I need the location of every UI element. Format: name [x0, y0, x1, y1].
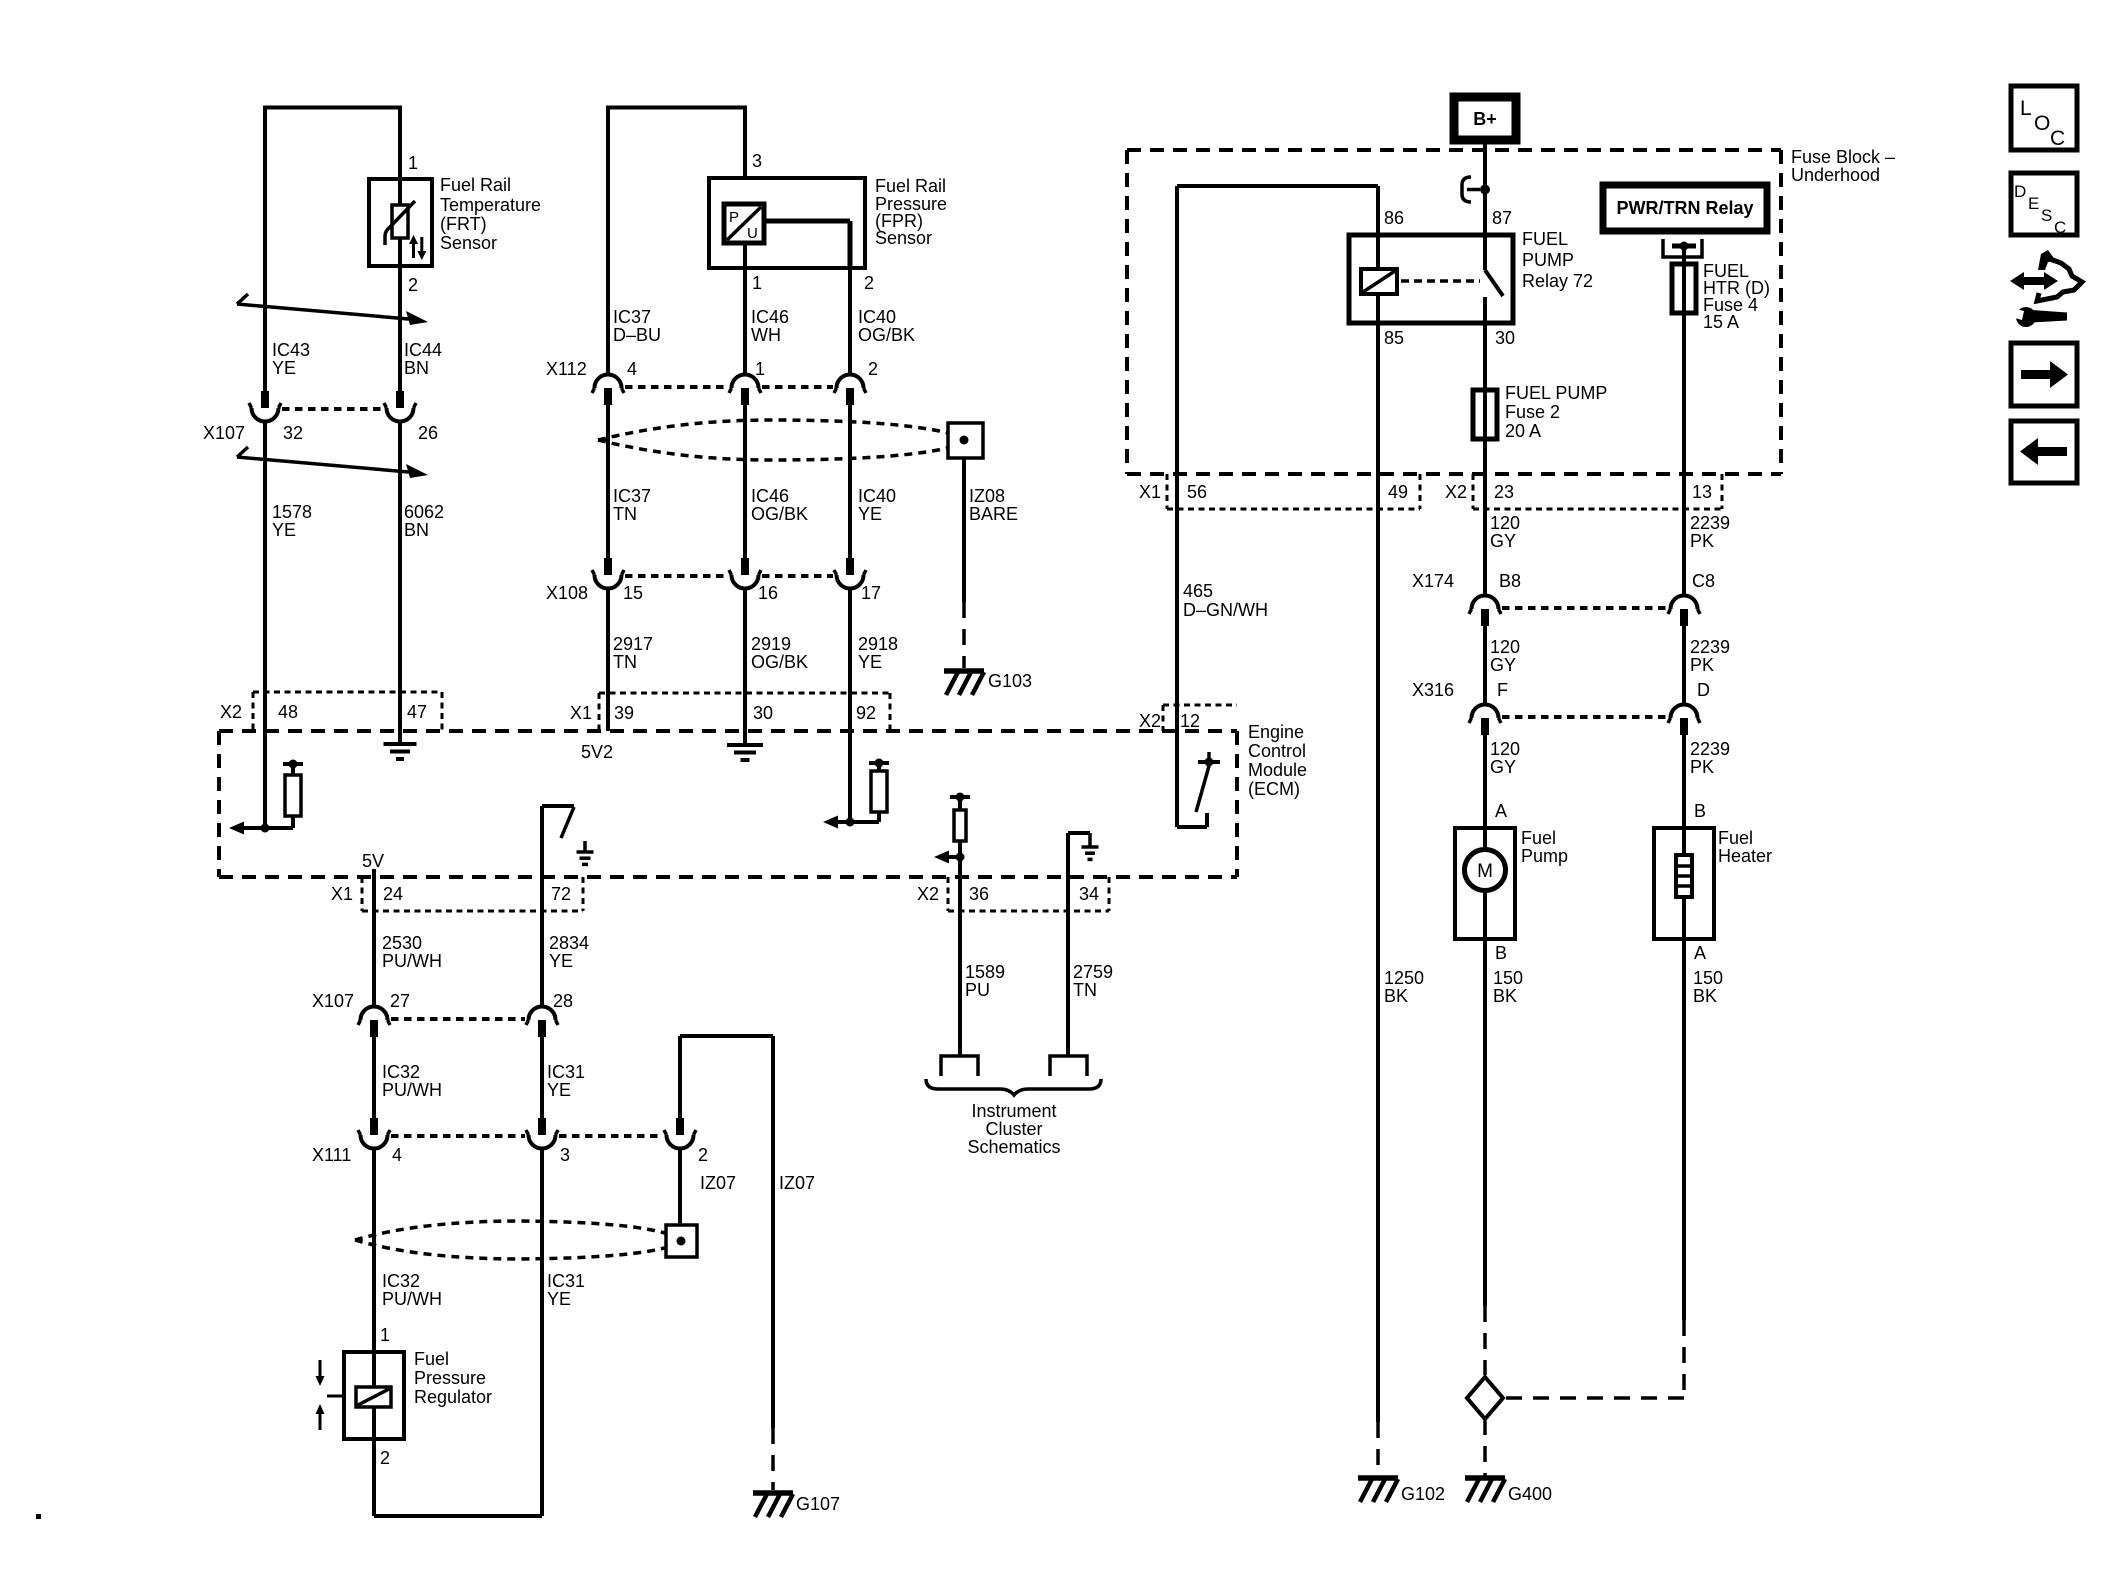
- svg-text:BN: BN: [404, 358, 429, 378]
- svg-text:39: 39: [614, 703, 634, 723]
- wire IC40 OG/BK below sensor: [848, 268, 852, 373]
- svg-text:5V2: 5V2: [581, 742, 613, 762]
- svg-text:X2: X2: [220, 702, 242, 722]
- relay switch blade: [1483, 235, 1487, 270]
- svg-text:2759: 2759: [1073, 962, 1113, 982]
- connector X107 row2 dashed link: [391, 1017, 525, 1021]
- svg-text:Fuse Block –: Fuse Block –: [1791, 147, 1895, 167]
- wire regulator pin 2 loop: [372, 1439, 376, 1516]
- wire splice to G400: [1483, 1419, 1487, 1476]
- svg-text:Pressure: Pressure: [414, 1368, 486, 1388]
- svg-text:86: 86: [1384, 208, 1404, 228]
- wire IC37 TN: [606, 405, 610, 558]
- svg-text:GY: GY: [1490, 655, 1516, 675]
- svg-text:IC46: IC46: [751, 307, 789, 327]
- connector X316 pin F: [1481, 718, 1489, 735]
- terminal pin 36 to cluster: [941, 1056, 978, 1076]
- ground G102: [1358, 1475, 1398, 1481]
- svg-text:Sensor: Sensor: [875, 228, 932, 248]
- svg-text:23: 23: [1494, 482, 1514, 502]
- connector X111 pin 3: [538, 1118, 546, 1135]
- svg-text:2239: 2239: [1690, 739, 1730, 759]
- ECM pin box X2 12: [1163, 704, 1237, 707]
- svg-text:IC44: IC44: [404, 340, 442, 360]
- svg-text:IC40: IC40: [858, 486, 896, 506]
- ECM pin box X1 39/30/92: [599, 692, 890, 695]
- wire IC46 OG/BK: [743, 405, 747, 558]
- svg-text:Underhood: Underhood: [1791, 165, 1880, 185]
- svg-text:47: 47: [407, 702, 427, 722]
- svg-text:Fuel: Fuel: [1718, 828, 1753, 848]
- PWR/TRN relay box: [1603, 185, 1767, 231]
- svg-text:28: 28: [553, 991, 573, 1011]
- wire fuse 4 to pin 13: [1682, 313, 1686, 474]
- wire IC44 BN below sensor: [398, 266, 402, 391]
- svg-text:465: 465: [1183, 581, 1213, 601]
- svg-text:Control: Control: [1248, 741, 1306, 761]
- regulator opposing arrows: [319, 1360, 322, 1376]
- svg-text:150: 150: [1693, 968, 1723, 988]
- wire 1589 PU: [958, 877, 962, 1056]
- svg-text:YE: YE: [549, 951, 573, 971]
- svg-text:IC40: IC40: [858, 307, 896, 327]
- svg-text:120: 120: [1490, 637, 1520, 657]
- svg-text:30: 30: [1495, 328, 1515, 348]
- svg-text:Cluster: Cluster: [985, 1119, 1042, 1139]
- svg-text:WH: WH: [751, 325, 781, 345]
- thermistor symbol inside FRT sensor: [392, 205, 408, 238]
- svg-text:Regulator: Regulator: [414, 1387, 492, 1407]
- svg-text:B+: B+: [1473, 109, 1497, 129]
- wire 2239 PK upper: [1682, 474, 1686, 595]
- svg-text:X112: X112: [546, 359, 587, 379]
- svg-text:Pump: Pump: [1521, 846, 1568, 866]
- svg-text:L: L: [2020, 97, 2032, 120]
- fuse block dashed border: [1127, 148, 1781, 152]
- svg-text:IC31: IC31: [547, 1271, 585, 1291]
- svg-text:PWR/TRN Relay: PWR/TRN Relay: [1616, 198, 1753, 218]
- svg-text:IC31: IC31: [547, 1062, 585, 1082]
- svg-text:1: 1: [408, 153, 418, 173]
- icon diagnostic squiggle: [2010, 272, 2058, 290]
- P/U transducer symbol: [724, 204, 764, 243]
- svg-text:72: 72: [551, 884, 571, 904]
- svg-text:YE: YE: [547, 1080, 571, 1100]
- wire 2917 TN: [606, 589, 610, 731]
- svg-text:1: 1: [380, 1325, 390, 1345]
- svg-text:2: 2: [868, 359, 878, 379]
- svg-text:PU/WH: PU/WH: [382, 1289, 442, 1309]
- svg-text:Heater: Heater: [1718, 846, 1772, 866]
- connector X107 pin 32: [261, 391, 269, 408]
- svg-text:F: F: [1497, 680, 1508, 700]
- fuel pump relay 72 box: [1349, 235, 1513, 323]
- svg-text:IC32: IC32: [382, 1271, 420, 1291]
- shield termination box IZ07: [666, 1225, 697, 1257]
- svg-text:IZ07: IZ07: [700, 1173, 736, 1193]
- ECM pin box X1 24/72: [361, 877, 364, 911]
- svg-text:YE: YE: [858, 504, 882, 524]
- FPR sensor box: [709, 178, 865, 268]
- svg-text:2834: 2834: [549, 933, 589, 953]
- svg-text:Schematics: Schematics: [967, 1137, 1060, 1157]
- wire 2239 PK middle: [1682, 626, 1686, 703]
- terminal pin 34 to cluster: [1050, 1056, 1087, 1076]
- fuel pump motor: [1483, 828, 1487, 850]
- ECM internal: pull-up + buffer at pin 36: [950, 795, 970, 799]
- wire 465 D-GN/WH inside fuse block: [1175, 186, 1179, 474]
- svg-text:2: 2: [864, 273, 874, 293]
- wire 465 D-GN/WH to ECM pin 12: [1175, 474, 1179, 731]
- connector X316 dashed link: [1502, 715, 1667, 719]
- connector X112 pin 4: [604, 388, 612, 405]
- wire into fuse 4: [1682, 246, 1686, 264]
- wire IC31 YE long down: [540, 1149, 544, 1516]
- svg-text:Fuse 2: Fuse 2: [1505, 402, 1560, 422]
- B+ terminal: [1454, 97, 1516, 140]
- icon box LOC: [2011, 86, 2077, 150]
- svg-text:2918: 2918: [858, 634, 898, 654]
- stray print mark: [36, 1514, 41, 1519]
- regulator solenoid coil: [356, 1387, 391, 1407]
- connector X174 pin C8: [1680, 609, 1688, 626]
- connector X112 dashed link: [625, 385, 728, 389]
- break arrow lower: [237, 447, 248, 457]
- wire IC46 WH below sensor: [743, 243, 747, 373]
- svg-text:24: 24: [383, 884, 403, 904]
- wire relay 30 to fuse 2: [1483, 323, 1487, 390]
- splice diamond: [1467, 1377, 1503, 1419]
- in-line connector clip on B+ wire: [1462, 177, 1471, 202]
- svg-text:OG/BK: OG/BK: [751, 504, 808, 524]
- wire FRT sensor loop top: [265, 106, 400, 110]
- fuse 2 element: [1473, 390, 1497, 439]
- fuel pump box: [1455, 828, 1515, 939]
- fuse 4 element: [1672, 264, 1696, 313]
- svg-text:B8: B8: [1499, 571, 1521, 591]
- connector X108 pin 15: [604, 558, 612, 575]
- svg-text:YE: YE: [858, 652, 882, 672]
- wire 150 BK heater: [1682, 939, 1686, 1320]
- svg-text:12: 12: [1180, 711, 1200, 731]
- svg-text:15 A: 15 A: [1703, 312, 1739, 332]
- svg-text:27: 27: [390, 991, 410, 1011]
- svg-text:Sensor: Sensor: [440, 233, 497, 253]
- svg-text:YE: YE: [272, 520, 296, 540]
- wire 120 GY upper: [1483, 474, 1487, 595]
- wire 150 BK pump: [1483, 939, 1487, 1306]
- svg-text:C: C: [2054, 218, 2066, 237]
- icon box arrow left: [2011, 421, 2077, 483]
- svg-text:1589: 1589: [965, 962, 1005, 982]
- svg-text:GY: GY: [1490, 531, 1516, 551]
- svg-text:150: 150: [1493, 968, 1523, 988]
- connector X108 pin 17: [846, 558, 854, 575]
- wire FPR loop top: [608, 106, 745, 110]
- svg-text:1578: 1578: [272, 502, 312, 522]
- svg-text:Fuel: Fuel: [414, 1349, 449, 1369]
- wire 2834 YE: [540, 877, 544, 1006]
- svg-text:IC37: IC37: [613, 307, 651, 327]
- svg-text:49: 49: [1388, 482, 1408, 502]
- connector X316 pin D: [1680, 718, 1688, 735]
- ECM dashed border: [219, 729, 1237, 733]
- wire 150 BK heater dashed to splice: [1682, 1320, 1686, 1396]
- wire fuse 2 to pin 23: [1483, 439, 1487, 474]
- svg-text:32: 32: [283, 423, 303, 443]
- svg-text:2: 2: [698, 1145, 708, 1165]
- svg-text:120: 120: [1490, 513, 1520, 533]
- svg-text:X1: X1: [1139, 482, 1161, 502]
- shield ellipse lower (twisted wires): [355, 1221, 668, 1240]
- brace instrument cluster: [926, 1079, 1101, 1095]
- connector X108 dashed link: [625, 574, 728, 578]
- ground G400: [1465, 1475, 1505, 1481]
- FRT sensor box: [369, 179, 432, 266]
- svg-text:O: O: [2034, 112, 2050, 135]
- wire 2239 PK lower: [1682, 735, 1686, 828]
- svg-text:1: 1: [755, 359, 765, 379]
- svg-text:X1: X1: [331, 884, 353, 904]
- ECM internal: pull-up + buffer at pin 48: [263, 731, 267, 828]
- ground G103: [944, 668, 984, 674]
- svg-text:X2: X2: [1445, 482, 1467, 502]
- wire 120 GY lower: [1483, 735, 1487, 828]
- ECM internal: pull-up + buffer at pin 92: [846, 818, 855, 827]
- svg-text:G107: G107: [796, 1494, 840, 1514]
- svg-text:X316: X316: [1412, 680, 1454, 700]
- svg-text:TN: TN: [613, 652, 637, 672]
- svg-text:B: B: [1495, 943, 1507, 963]
- svg-text:D: D: [2014, 182, 2026, 201]
- svg-text:2239: 2239: [1690, 513, 1730, 533]
- shield ellipse (twisted wires): [598, 420, 952, 440]
- svg-text:87: 87: [1492, 208, 1512, 228]
- svg-text:(FRT): (FRT): [440, 214, 487, 234]
- relay internal dashed link: [1401, 279, 1480, 283]
- svg-text:A: A: [1694, 943, 1706, 963]
- svg-text:Fuel: Fuel: [1521, 828, 1556, 848]
- svg-text:C: C: [2050, 127, 2065, 150]
- svg-text:IZ08: IZ08: [969, 486, 1005, 506]
- svg-text:3: 3: [560, 1145, 570, 1165]
- svg-text:BN: BN: [404, 520, 429, 540]
- wire 1578 YE: [263, 422, 267, 731]
- svg-text:BK: BK: [1693, 986, 1717, 1006]
- svg-text:4: 4: [627, 359, 637, 379]
- svg-text:TN: TN: [1073, 980, 1097, 1000]
- svg-text:PU: PU: [965, 980, 990, 1000]
- regulator wire through: [372, 1352, 376, 1387]
- wire 120 GY middle: [1483, 626, 1487, 703]
- wire IC32 PU/WH upper: [372, 1037, 376, 1121]
- wire IC40 YE: [848, 405, 852, 558]
- wire B+ feed: [1483, 140, 1487, 235]
- ground G107: [753, 1490, 793, 1496]
- svg-text:X107: X107: [312, 991, 354, 1011]
- connector X174 dashed link: [1502, 606, 1667, 610]
- svg-text:15: 15: [623, 583, 643, 603]
- wire 1250 BK: [1376, 474, 1380, 1422]
- svg-text:13: 13: [1692, 482, 1712, 502]
- svg-text:2: 2: [408, 275, 418, 295]
- svg-text:2919: 2919: [751, 634, 791, 654]
- ECM internal: signal ground at pin 34: [1066, 833, 1070, 877]
- wire 465 D-GN/WH inside ECM (pin 12 driver): [1175, 731, 1179, 827]
- svg-text:U: U: [747, 225, 758, 242]
- fuel heater element: [1682, 828, 1686, 855]
- ECM pin box X2 36/34: [947, 877, 950, 911]
- svg-text:IZ07: IZ07: [779, 1173, 815, 1193]
- ECM internal: switch blade pin 12: [1196, 766, 1209, 812]
- connector X112 pin 1: [741, 388, 749, 405]
- svg-text:34: 34: [1079, 884, 1099, 904]
- wire IC43 YE (pin1 side): [263, 106, 267, 392]
- svg-text:FUEL PUMP: FUEL PUMP: [1505, 383, 1607, 403]
- connector X112 pin 2: [846, 388, 854, 405]
- svg-text:Temperature: Temperature: [440, 195, 541, 215]
- svg-text:26: 26: [418, 423, 438, 443]
- connector X107 pin 27: [370, 1020, 378, 1037]
- svg-text:X111: X111: [312, 1145, 351, 1165]
- ECM pin box X2 48/47: [253, 691, 442, 694]
- svg-text:92: 92: [856, 703, 876, 723]
- svg-text:A: A: [1495, 801, 1507, 821]
- connector X111 dashed links: [391, 1134, 525, 1138]
- svg-text:5V: 5V: [362, 851, 384, 871]
- wire IZ07 from X111 pin 2 up and over: [678, 1036, 682, 1119]
- wire IC44 BN segment above sensor: [398, 106, 402, 180]
- svg-text:Fuel Rail: Fuel Rail: [875, 176, 946, 196]
- ECM internal: ground at pin 47: [398, 731, 402, 742]
- svg-text:36: 36: [969, 884, 989, 904]
- svg-text:P: P: [729, 209, 739, 226]
- svg-text:PK: PK: [1690, 757, 1714, 777]
- svg-text:17: 17: [861, 583, 881, 603]
- wire 2919 OG/BK: [743, 589, 747, 731]
- connector X107 pin 26: [396, 391, 404, 408]
- connector X108 pin 16: [741, 558, 749, 575]
- wire IC32 PU/WH lower: [372, 1149, 376, 1352]
- svg-text:IC37: IC37: [613, 486, 651, 506]
- wire 2918 YE: [848, 589, 852, 822]
- connector X174 pin B8: [1481, 609, 1489, 626]
- ECM internal: switch to ground at pin 72: [540, 806, 544, 877]
- svg-text:16: 16: [758, 583, 778, 603]
- svg-text:B: B: [1694, 801, 1706, 821]
- icon box DESC: [2011, 173, 2077, 235]
- svg-text:30: 30: [753, 703, 773, 723]
- svg-text:S: S: [2041, 206, 2052, 225]
- shield termination box IZ08: [948, 423, 983, 458]
- svg-text:6062: 6062: [404, 502, 444, 522]
- svg-text:(ECM): (ECM): [1248, 779, 1300, 799]
- wire IC31 YE upper: [540, 1037, 544, 1121]
- svg-text:48: 48: [278, 702, 298, 722]
- svg-text:D–BU: D–BU: [613, 325, 661, 345]
- connector X111 pin 2: [676, 1118, 684, 1135]
- wire X111 pin2 to shield box: [678, 1149, 682, 1226]
- svg-text:OG/BK: OG/BK: [751, 652, 808, 672]
- svg-text:IC43: IC43: [272, 340, 310, 360]
- svg-text:PU/WH: PU/WH: [382, 951, 442, 971]
- svg-text:X1: X1: [570, 703, 592, 723]
- svg-text:X2: X2: [917, 884, 939, 904]
- fuse 4 socket clip: [1663, 239, 1702, 257]
- svg-text:G400: G400: [1508, 1484, 1552, 1504]
- wire IZ08 BARE drain to G103: [962, 458, 966, 602]
- svg-text:BARE: BARE: [969, 504, 1018, 524]
- connector X111 pin 4: [370, 1118, 378, 1135]
- wire 2759 TN: [1066, 877, 1070, 1056]
- svg-text:BK: BK: [1384, 986, 1408, 1006]
- svg-text:Instrument: Instrument: [971, 1101, 1056, 1121]
- svg-text:85: 85: [1384, 328, 1404, 348]
- svg-text:M: M: [1477, 861, 1493, 882]
- fuel pressure regulator box: [344, 1352, 404, 1439]
- svg-text:D–GN/WH: D–GN/WH: [1183, 600, 1268, 620]
- break arrow upper (wires to X107): [237, 294, 248, 304]
- svg-text:X2: X2: [1139, 711, 1161, 731]
- svg-text:IC46: IC46: [751, 486, 789, 506]
- svg-text:OG/BK: OG/BK: [858, 325, 915, 345]
- svg-text:PK: PK: [1690, 531, 1714, 551]
- connector X107 dashed link: [282, 407, 384, 411]
- fuse block pin box X2 23/13: [1472, 474, 1475, 509]
- svg-text:X107: X107: [203, 423, 245, 443]
- connector X107 pin 28: [538, 1020, 546, 1037]
- svg-text:IC32: IC32: [382, 1062, 420, 1082]
- svg-text:2530: 2530: [382, 933, 422, 953]
- svg-text:G102: G102: [1401, 1484, 1445, 1504]
- FRT variable arrows: [412, 241, 415, 258]
- svg-text:Relay 72: Relay 72: [1522, 271, 1593, 291]
- wire relay coil feed (to 86): [1177, 184, 1378, 188]
- svg-text:YE: YE: [272, 358, 296, 378]
- svg-text:PUMP: PUMP: [1522, 250, 1574, 270]
- svg-text:C8: C8: [1692, 571, 1715, 591]
- svg-text:BK: BK: [1493, 986, 1517, 1006]
- svg-text:PU/WH: PU/WH: [382, 1080, 442, 1100]
- ECM internal: ground at pin 30: [743, 731, 747, 743]
- svg-text:2: 2: [380, 1448, 390, 1468]
- fuel heater box: [1654, 828, 1714, 939]
- svg-text:20 A: 20 A: [1505, 421, 1541, 441]
- svg-text:4: 4: [392, 1145, 402, 1165]
- svg-text:D: D: [1697, 680, 1710, 700]
- svg-text:X174: X174: [1412, 571, 1454, 591]
- wire 2530 PU/WH: [372, 877, 376, 1006]
- svg-text:X108: X108: [546, 583, 588, 603]
- svg-text:GY: GY: [1490, 757, 1516, 777]
- wire 6062 BN: [398, 422, 402, 731]
- svg-text:Engine: Engine: [1248, 722, 1304, 742]
- wire relay 85 to pin 49: [1376, 323, 1380, 474]
- icon box arrow right: [2011, 343, 2077, 406]
- svg-text:YE: YE: [547, 1289, 571, 1309]
- svg-text:E: E: [2028, 194, 2039, 213]
- svg-text:Module: Module: [1248, 760, 1307, 780]
- svg-text:2239: 2239: [1690, 637, 1730, 657]
- svg-text:Fuel Rail: Fuel Rail: [440, 175, 511, 195]
- svg-text:G103: G103: [988, 671, 1032, 691]
- FPR internal link to pin 2: [764, 219, 850, 224]
- svg-text:TN: TN: [613, 504, 637, 524]
- wire IC46 WH pin3: [743, 106, 747, 205]
- svg-text:1250: 1250: [1384, 968, 1424, 988]
- svg-text:56: 56: [1187, 482, 1207, 502]
- svg-text:3: 3: [752, 151, 762, 171]
